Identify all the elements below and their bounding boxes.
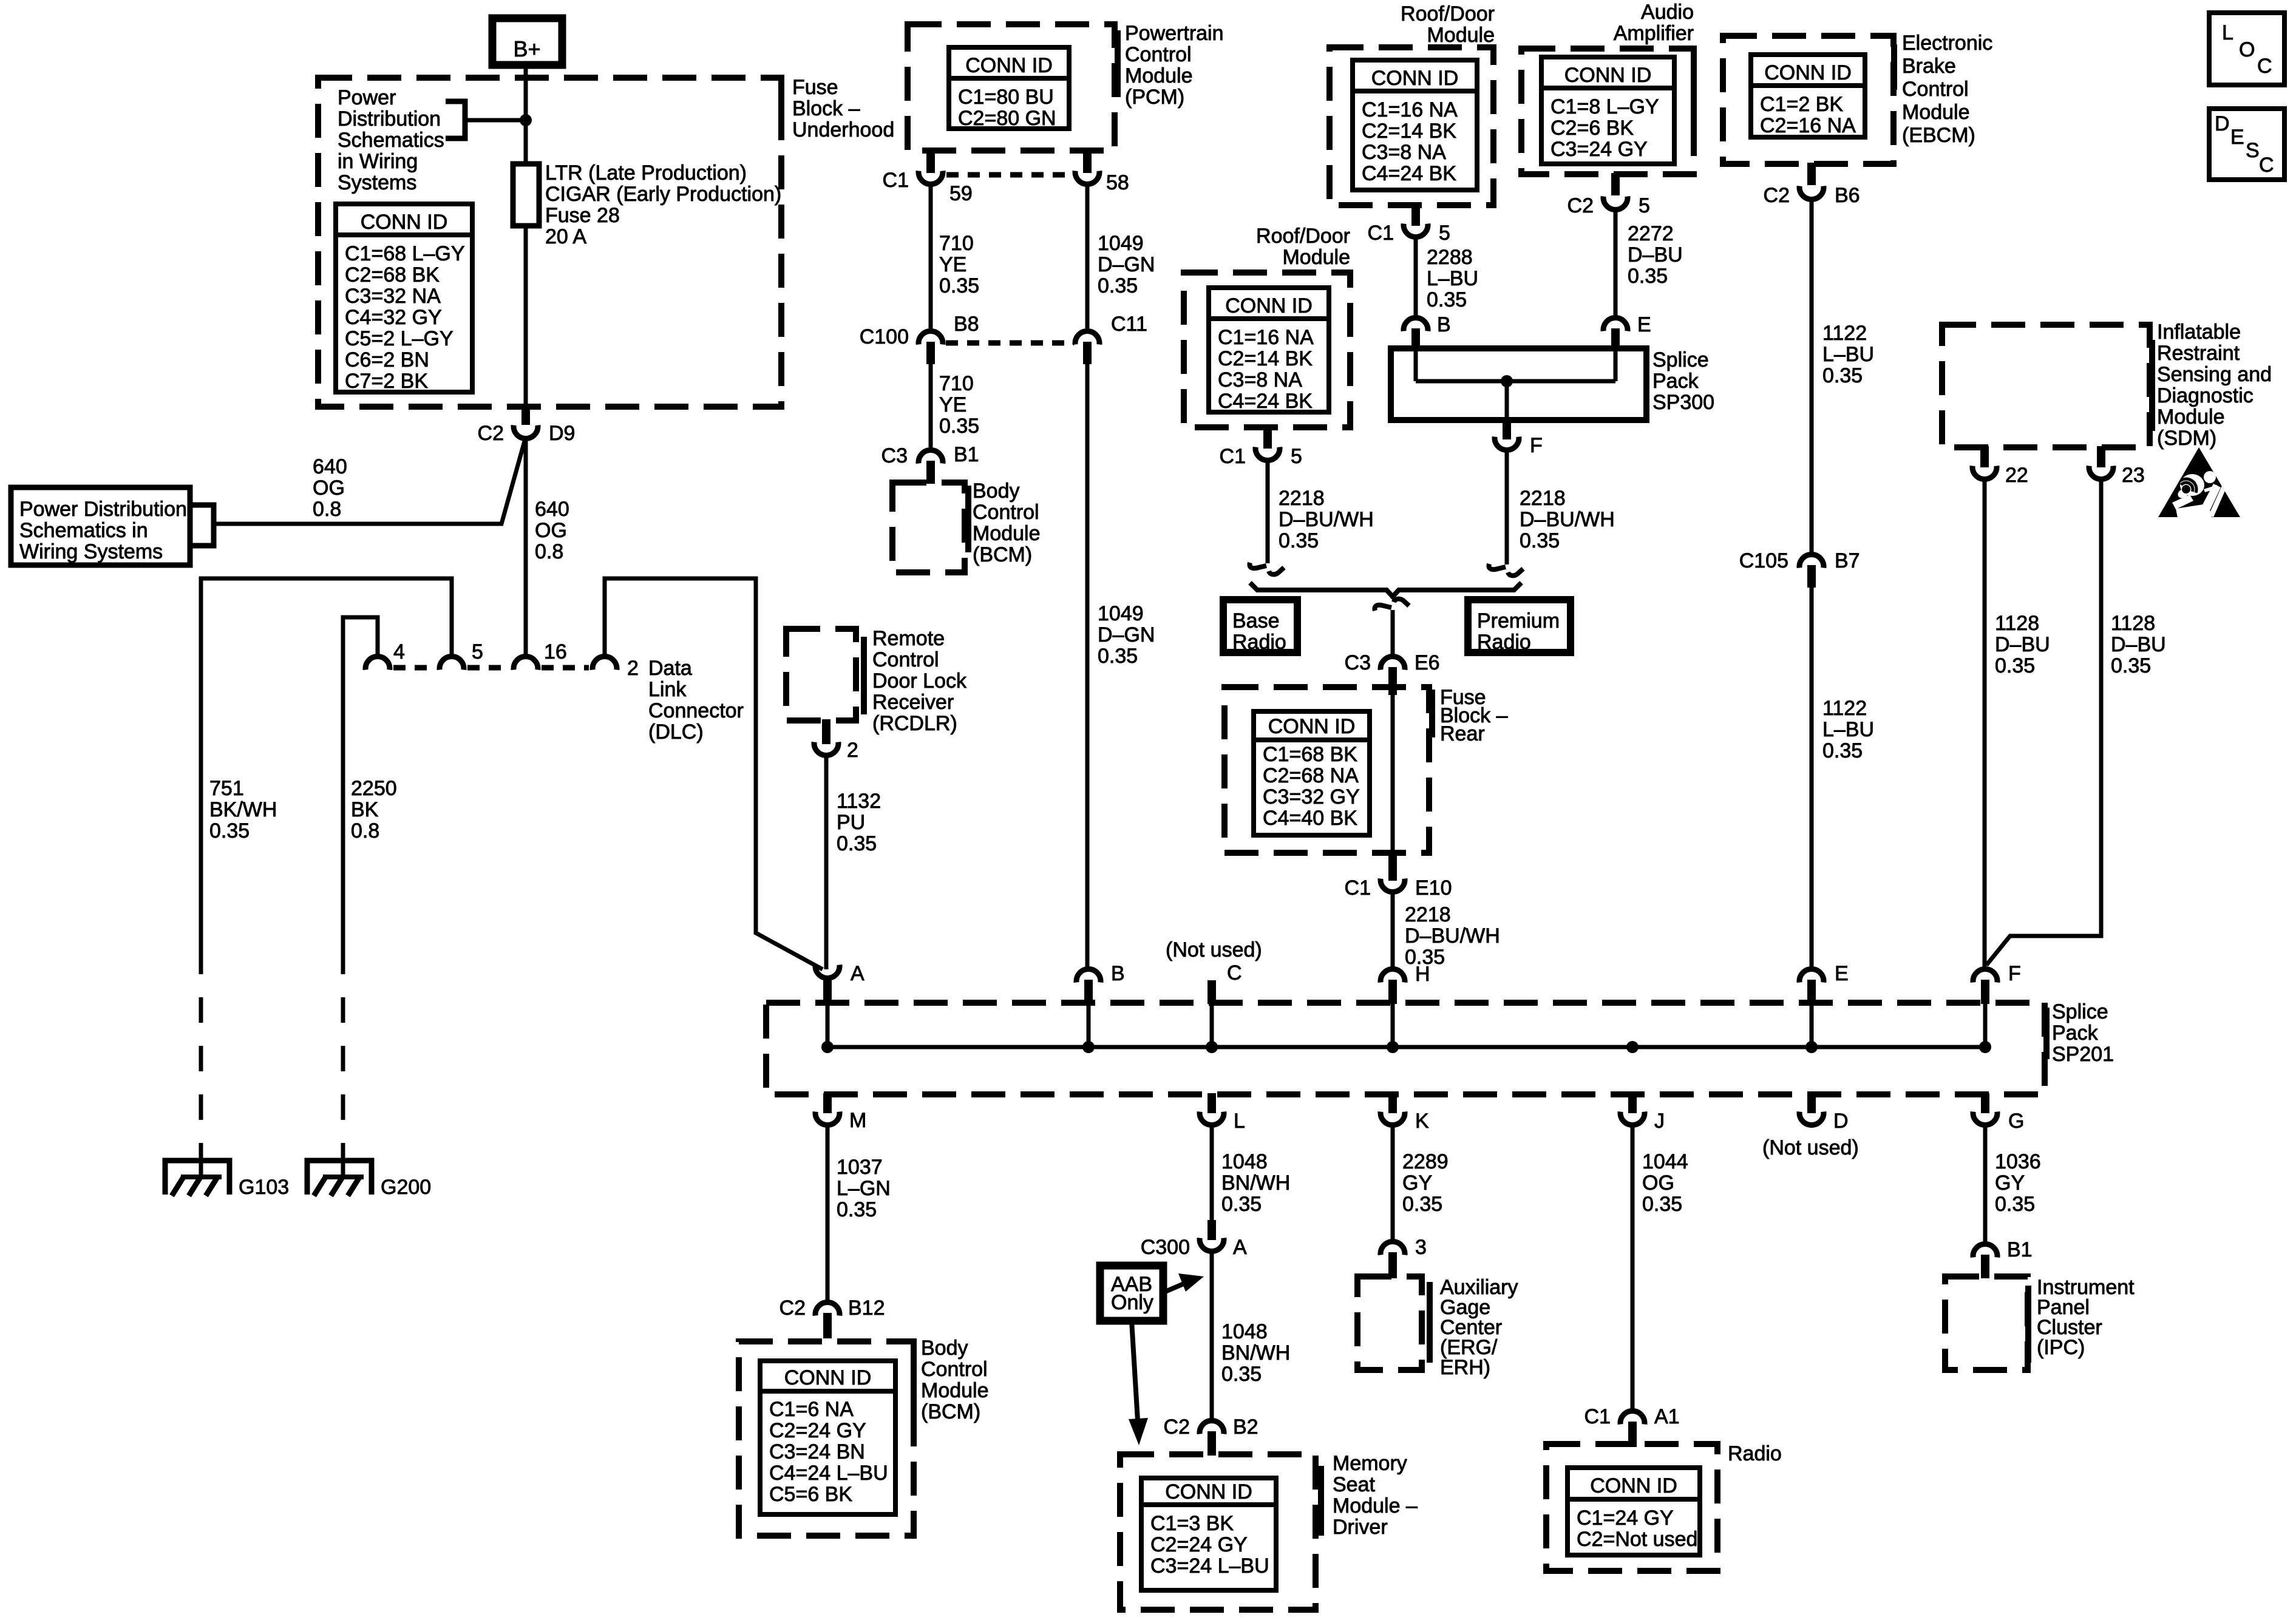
svg-text:0.35: 0.35 [1221,1193,1262,1216]
Radio dashed box [1546,1444,1717,1571]
SDM dashed box [1942,325,2150,447]
BCM dashed box (upper) [892,483,965,572]
svg-text:C1: C1 [1345,876,1371,900]
junction node H [1387,1041,1399,1053]
wire 1132 PU to splice A [824,756,829,969]
BCM dashed box (lower) [739,1341,914,1536]
svg-text:F: F [1530,434,1543,457]
connector splice J [1628,1093,1637,1113]
svg-text:4: 4 [393,640,405,663]
svg-text:Control: Control [1125,43,1192,66]
node junction on B+ wire [520,114,532,126]
svg-text:(Not used): (Not used) [1166,938,1262,961]
svg-text:F: F [2008,962,2021,985]
SP300 internal wire to F [1505,381,1509,420]
svg-text:23: 23 [2122,464,2145,487]
svg-text:0.35: 0.35 [1822,739,1863,762]
Premium Radio box [1468,600,1571,653]
svg-text:D–BU: D–BU [2111,633,2166,656]
connector splice E [1799,969,1824,983]
connector C100 B8 [919,331,943,345]
svg-text:2218: 2218 [1520,487,1566,510]
CONN ID table (Audio Amplifier) [1541,57,1674,164]
svg-text:Fuse 28: Fuse 28 [545,204,620,227]
svg-text:D–GN: D–GN [1098,253,1155,276]
junction node E [1805,1041,1818,1053]
svg-text:C4=24 BK: C4=24 BK [1218,390,1313,413]
AAB Only box [1100,1266,1163,1321]
connector C2 D9 [521,405,530,425]
svg-text:Module –: Module – [1333,1494,1418,1517]
svg-text:2218: 2218 [1405,903,1451,926]
connector DLC pin 16 [514,657,538,670]
svg-text:Inflatable: Inflatable [2157,320,2241,344]
CONN ID table (Fuse Block Rear) [1254,711,1370,835]
SP300 internal bus [1416,379,1615,384]
svg-text:C2: C2 [1567,194,1594,217]
svg-text:C1=68 L–GY: C1=68 L–GY [345,242,465,265]
connector EBCM C2 B6 [1807,163,1816,185]
svg-text:CONN ID: CONN ID [1590,1474,1677,1497]
svg-text:Module: Module [1125,64,1193,87]
wire B+ to fuse [524,65,528,164]
svg-text:Pack: Pack [2052,1022,2099,1045]
connector C11 [1075,331,1099,345]
svg-text:C2=6 BK: C2=6 BK [1550,117,1634,140]
svg-text:C4=32 GY: C4=32 GY [345,306,442,329]
svg-text:(BCM): (BCM) [921,1400,980,1423]
svg-text:C1=68 BK: C1=68 BK [1263,743,1357,766]
svg-text:Module: Module [1282,246,1350,269]
splice pack SP300 box [1391,348,1646,420]
svg-text:G103: G103 [239,1176,289,1199]
svg-text:GY: GY [1402,1171,1432,1195]
wire 1048 BN/WH to memory seat [1210,1252,1214,1419]
connector splice C stub [1207,980,1216,1004]
PCM connector dashed link [946,172,1072,178]
svg-text:22: 22 [2005,464,2028,487]
connector aux gage pin 3 [1381,1242,1405,1255]
connector SP300 F [1503,420,1511,439]
svg-text:Door Lock: Door Lock [872,670,967,693]
svg-text:Fuse: Fuse [792,76,838,99]
svg-text:L: L [1234,1110,1245,1133]
svg-text:C3=8 NA: C3=8 NA [1218,368,1302,392]
svg-text:CONN ID: CONN ID [1371,67,1459,90]
svg-text:Audio: Audio [1641,1,1694,24]
label bracket BCM lower [911,1344,917,1420]
svg-text:Control: Control [1902,78,1969,101]
svg-text:C1: C1 [1368,222,1394,245]
CONN ID table (BCM lower) [760,1361,895,1514]
svg-text:D–GN: D–GN [1098,623,1155,646]
svg-text:Control: Control [921,1358,988,1381]
Fuse Block Rear dashed box [1224,687,1429,853]
wire inside SP201 column F [1983,1004,1988,1047]
svg-text:Base: Base [1232,609,1280,632]
wire 2218 D-BU/WH to splice H [1391,892,1395,968]
svg-text:16: 16 [544,640,567,663]
svg-text:C4=24 BK: C4=24 BK [1362,162,1456,185]
svg-text:G200: G200 [381,1176,431,1199]
label bracket EBCM [1891,44,1897,90]
svg-text:C1=16 NA: C1=16 NA [1218,326,1314,349]
wire inside fuse block rear [1391,692,1395,859]
svg-text:Body: Body [973,480,1020,503]
wire 2250 BK dashed to G200 [341,949,345,1159]
svg-text:2250: 2250 [351,777,397,800]
svg-text:G: G [2008,1110,2024,1133]
svg-text:Pack: Pack [1652,370,1699,393]
connector splice F [1973,969,1997,983]
svg-text:Module: Module [973,522,1041,545]
svg-text:BN/WH: BN/WH [1221,1341,1290,1364]
svg-text:640: 640 [313,455,347,478]
svg-text:Schematics in: Schematics in [19,519,148,542]
svg-text:C2=14 BK: C2=14 BK [1362,120,1456,143]
CONN ID table (EBCM) [1751,55,1865,137]
svg-text:A1: A1 [1654,1405,1680,1428]
svg-text:0.35: 0.35 [1520,529,1560,552]
svg-text:0.35: 0.35 [1822,364,1863,387]
svg-text:0.8: 0.8 [313,498,341,521]
svg-text:SP201: SP201 [2052,1043,2114,1066]
connector splice H [1381,969,1405,983]
svg-text:CONN ID: CONN ID [1268,715,1356,738]
svg-text:1036: 1036 [1995,1150,2041,1173]
wire 640 OG branch to power distribution reference [214,441,525,524]
fuse block underhood dashed box [318,78,781,407]
svg-text:1122: 1122 [1822,322,1867,345]
wire inside SP201 column H [1391,1004,1395,1047]
svg-text:Data: Data [648,657,692,680]
svg-text:Module: Module [1902,101,1970,124]
svg-text:CONN ID: CONN ID [1165,1480,1252,1503]
svg-text:BK/WH: BK/WH [209,798,277,821]
svg-text:2289: 2289 [1402,1150,1449,1173]
svg-text:C3=24 L–BU: C3=24 L–BU [1150,1554,1269,1578]
svg-text:A: A [851,962,864,985]
reference box Power Distribution Schematics in Wiring Systems [11,487,190,565]
svg-text:B: B [1437,313,1451,336]
wire to C3/E6 [1391,610,1395,655]
Roof/Door Module dashed box (top) [1330,47,1493,205]
svg-text:Remote: Remote [872,627,945,650]
svg-text:C11: C11 [1111,313,1147,336]
connector C3 B1 [919,450,943,464]
wire inside SP201 column B [1087,1004,1091,1047]
svg-text:C2: C2 [1164,1415,1190,1439]
svg-text:58: 58 [1106,171,1129,194]
wire to Power Distribution reference (top) [467,118,526,123]
label bracket Fuse Block Rear [1429,690,1435,737]
svg-text:E: E [2230,126,2244,149]
junction node C [1206,1041,1218,1053]
connector PCM C1 pin 59 [926,149,935,173]
svg-text:B+: B+ [513,36,540,61]
svg-text:0.35: 0.35 [1995,1193,2035,1216]
svg-text:C3=32 NA: C3=32 NA [345,285,441,308]
svg-text:BN/WH: BN/WH [1221,1171,1290,1195]
svg-text:E: E [1835,962,1849,985]
svg-text:C3=8 NA: C3=8 NA [1362,141,1446,164]
wire fuse to connector C2/D9 [524,226,528,407]
svg-text:Module: Module [921,1379,989,1402]
fuse F28 LTR/CIGAR [513,164,539,226]
svg-text:C1: C1 [883,169,909,192]
CONN ID table (Roof/Door top) [1353,60,1477,190]
svg-text:D: D [1833,1110,1849,1133]
reference bracket left [190,505,214,546]
svg-text:(SDM): (SDM) [2157,427,2216,450]
svg-text:J: J [1654,1110,1665,1133]
svg-text:Only: Only [1111,1291,1153,1314]
connector C105 B7 [1799,555,1824,568]
wire 2218 D-BU/WH from F [1505,450,1509,564]
connector DLC pin 4 [365,657,390,670]
svg-text:C: C [2259,154,2274,177]
Audio Amplifier dashed box [1521,49,1694,174]
CONN ID table (Fuse Block Underhood) [336,204,472,392]
connector DLC pin 2 [593,657,617,670]
svg-text:Premium: Premium [1477,609,1560,632]
connector splice D (not used) [1807,1093,1816,1113]
svg-text:0.35: 0.35 [1098,645,1138,668]
svg-text:H: H [1415,963,1430,986]
svg-text:Amplifier: Amplifier [1614,22,1694,45]
svg-text:Body: Body [921,1337,968,1360]
arrow AAB to 1048 wire [1164,1283,1185,1292]
svg-text:C2=68 NA: C2=68 NA [1263,764,1359,787]
wire 1128 D-BU pin23 to splice F [1986,480,2101,965]
svg-text:D9: D9 [549,422,575,445]
svg-text:Module: Module [1427,24,1495,47]
connector RCDLR pin 2 [822,719,830,744]
connector splice K [1388,1093,1397,1113]
svg-text:5: 5 [1639,194,1650,217]
connector C3 E6 [1381,657,1405,670]
svg-text:Power: Power [338,86,396,109]
wire 1122 L-BU to C105 [1810,200,1814,553]
wire 1044 OG to radio [1631,1125,1635,1409]
open connector start to fuse block rear [1374,605,1391,611]
svg-text:59: 59 [949,182,973,205]
svg-text:(BCM): (BCM) [973,543,1032,566]
svg-text:A: A [1233,1236,1247,1259]
svg-text:C1=8 L–GY: C1=8 L–GY [1550,95,1659,118]
svg-text:SP300: SP300 [1652,391,1714,414]
svg-text:Control: Control [973,501,1039,524]
svg-text:C300: C300 [1141,1236,1190,1259]
svg-text:CONN ID: CONN ID [965,54,1053,77]
label bracket SP201 [2043,1008,2050,1059]
svg-text:C3=24 BN: C3=24 BN [769,1440,865,1463]
connector splice E (SP300) [1603,318,1628,331]
svg-text:0.35: 0.35 [939,415,979,438]
connector splice M [823,1093,832,1113]
svg-text:L–BU: L–BU [1427,267,1478,290]
svg-text:3: 3 [1415,1236,1427,1259]
svg-text:Radio: Radio [1728,1442,1782,1465]
svg-text:Module: Module [2157,405,2225,429]
svg-text:0.35: 0.35 [1402,1193,1442,1216]
svg-text:PU: PU [837,811,865,834]
svg-text:C: C [1227,961,1242,985]
svg-text:D–BU: D–BU [1995,633,2050,656]
svg-text:C2=80 GN: C2=80 GN [958,107,1056,130]
svg-text:C3=32 GY: C3=32 GY [1263,785,1360,808]
svg-text:5: 5 [1439,222,1450,245]
svg-text:Distribution: Distribution [338,107,441,131]
label bracket Memory Seat [1318,1466,1324,1536]
svg-text:Receiver: Receiver [872,691,954,714]
svg-text:L: L [2222,21,2233,44]
svg-text:0.8: 0.8 [351,819,379,842]
svg-text:C: C [2257,55,2272,78]
svg-text:C2=24 GY: C2=24 GY [769,1419,866,1442]
svg-text:L–BU: L–BU [1822,718,1874,741]
svg-text:C2=14 BK: C2=14 BK [1218,347,1313,370]
svg-text:Radio: Radio [1477,631,1531,654]
svg-text:C1: C1 [1584,1405,1611,1428]
label bracket SDM [2149,340,2155,431]
splice pack SP201 dashed box [766,1003,2045,1094]
svg-text:Rear: Rear [1440,722,1485,745]
svg-text:(IPC): (IPC) [2037,1336,2085,1359]
svg-text:B8: B8 [954,313,979,336]
wire 1049 D-GN to splice B [1085,364,1090,968]
svg-text:0.35: 0.35 [1427,288,1467,311]
label bracket IPC [2025,1286,2031,1363]
wire inside SP201 column A [826,1004,830,1047]
svg-text:0.35: 0.35 [209,819,250,842]
svg-text:5: 5 [1291,445,1302,468]
svg-text:Roof/Door: Roof/Door [1256,225,1350,248]
svg-text:YE: YE [939,393,966,416]
EBCM dashed box [1723,36,1894,164]
CONN ID table (Radio) [1567,1468,1700,1555]
svg-text:D–BU/WH: D–BU/WH [1279,508,1374,531]
CONN ID table (Memory Seat) [1141,1478,1276,1590]
svg-text:Splice: Splice [1652,348,1709,371]
connector IPC B1 [1973,1244,1997,1258]
svg-text:D–BU/WH: D–BU/WH [1405,924,1500,947]
wire 1132 PU from DLC pin 2 [605,578,823,969]
junction node J [1626,1041,1639,1053]
svg-text:in Wiring: in Wiring [338,150,418,173]
svg-text:C105: C105 [1739,549,1788,572]
svg-text:(DLC): (DLC) [648,720,704,744]
connector splice B (SP300) [1404,318,1428,331]
svg-text:(EBCM): (EBCM) [1902,124,1975,147]
connector splice B [1076,969,1101,983]
svg-text:E: E [1637,313,1651,336]
SP300 internal wire from E [1614,350,1618,381]
svg-text:C6=2 BN: C6=2 BN [345,348,429,371]
svg-text:YE: YE [939,253,966,276]
svg-text:Powertrain: Powertrain [1125,22,1224,45]
RCDLR dashed box [786,629,856,720]
SRS warning triangle [2158,447,2240,518]
wire inside SP201 column E [1810,1004,1814,1047]
svg-text:OG: OG [535,519,567,542]
svg-text:CONN ID: CONN ID [1764,61,1852,84]
label bracket PCM [1115,30,1121,97]
LOC reference box [2209,13,2284,85]
svg-text:OG: OG [1642,1171,1674,1195]
label bracket Aux Gage [1427,1282,1433,1363]
svg-text:C2: C2 [1764,184,1790,207]
svg-text:1049: 1049 [1098,602,1144,625]
PCM dashed box [908,24,1115,151]
svg-text:Sensing and: Sensing and [2157,363,2272,386]
connector Audio C2 pin 5 [1611,173,1620,195]
connector C1 A1 [1620,1411,1645,1425]
IPC dashed box [1945,1276,2028,1370]
svg-text:Driver: Driver [1333,1516,1388,1539]
wire 1122 L-BU to splice E [1810,588,1814,968]
svg-text:C2=24 GY: C2=24 GY [1150,1533,1248,1556]
svg-text:C1: C1 [1220,445,1246,468]
svg-text:2288: 2288 [1427,246,1473,269]
svg-text:L–GN: L–GN [837,1177,891,1200]
svg-text:M: M [849,1109,866,1132]
svg-text:CONN ID: CONN ID [361,211,448,234]
svg-text:Seat: Seat [1333,1473,1375,1496]
svg-text:OG: OG [313,476,345,500]
svg-text:0.35: 0.35 [2111,654,2151,677]
svg-text:CONN ID: CONN ID [1564,64,1652,87]
svg-text:B1: B1 [2007,1238,2033,1261]
SP300 internal wire from B [1414,350,1418,381]
svg-text:C1=3 BK: C1=3 BK [1150,1512,1234,1535]
svg-text:Brake: Brake [1902,55,1956,78]
power symbol B+ [492,18,562,65]
svg-text:K: K [1415,1110,1429,1133]
svg-text:1044: 1044 [1642,1150,1688,1173]
svg-text:C1=6 NA: C1=6 NA [769,1398,854,1421]
svg-text:C3: C3 [881,444,908,467]
svg-text:0.35: 0.35 [1628,265,1668,288]
svg-text:1048: 1048 [1221,1320,1268,1343]
svg-text:CIGAR (Early Production): CIGAR (Early Production) [545,183,781,206]
svg-text:CONN ID: CONN ID [784,1366,872,1389]
svg-text:1132: 1132 [837,790,881,813]
svg-text:Link: Link [648,678,687,701]
svg-text:B2: B2 [1233,1415,1258,1439]
svg-text:C2: C2 [779,1297,806,1320]
wire 710 YE PCM-59 to C100 [929,185,933,328]
Memory Seat Module dashed box [1120,1454,1316,1610]
Roof/Door Module dashed box (middle) [1184,273,1350,427]
svg-text:C2=16 NA: C2=16 NA [1760,114,1856,137]
junction node F [1979,1041,1991,1053]
svg-text:0.35: 0.35 [1098,274,1138,297]
arrow AAB to memory seat connector [1132,1321,1138,1420]
svg-text:Connector: Connector [648,699,744,722]
wire 2289 GY to aux gage [1391,1125,1395,1240]
svg-text:710: 710 [939,232,974,255]
svg-text:ERH): ERH) [1440,1356,1490,1379]
svg-text:C7=2 BK: C7=2 BK [345,370,428,393]
wire 1049 D-GN PCM-58 down [1085,185,1090,328]
svg-text:B1: B1 [954,443,979,466]
SP300 junction node [1501,375,1513,387]
wire 710 YE to BCM [929,364,933,447]
svg-text:C2=Not used: C2=Not used [1577,1528,1697,1551]
svg-text:2: 2 [627,657,639,680]
svg-text:E6: E6 [1415,651,1440,674]
